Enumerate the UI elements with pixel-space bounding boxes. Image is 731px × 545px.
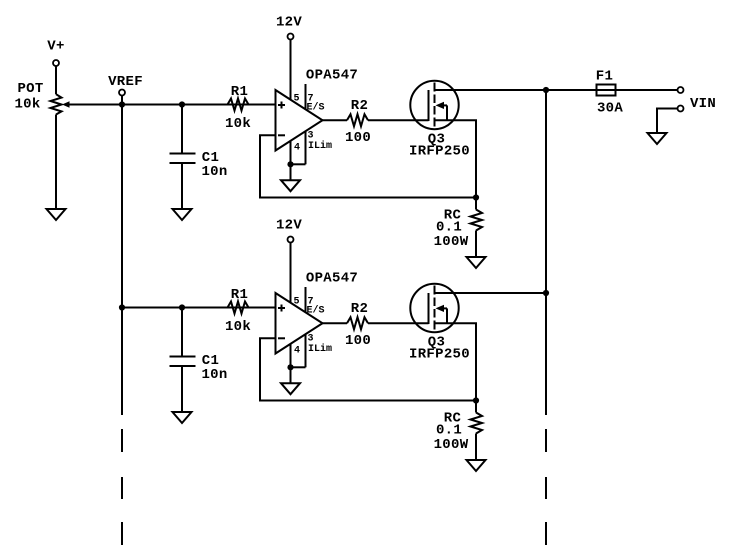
pin 3 ILim stub bbox=[305, 334, 307, 367]
svg-text:100W: 100W bbox=[434, 234, 469, 250]
wire op-amp output 2 bbox=[323, 322, 348, 324]
capacitor C1 10n (2) bbox=[170, 356, 196, 358]
wire bbox=[475, 434, 477, 461]
wire drain 2 bbox=[435, 292, 547, 294]
node pin3/4 junction 2 bbox=[287, 364, 293, 370]
svg-text:12V: 12V bbox=[276, 218, 302, 234]
svg-text:E/S: E/S bbox=[306, 305, 324, 317]
pin 4 bbox=[290, 141, 292, 165]
wire bbox=[55, 66, 57, 94]
wire bbox=[290, 367, 292, 383]
wire right bus bbox=[545, 90, 547, 415]
svg-text:100W: 100W bbox=[434, 437, 469, 453]
pin 4 bbox=[290, 344, 292, 368]
terminal 12V (top) bbox=[288, 34, 294, 40]
wire bbox=[181, 366, 183, 412]
resistor R2 100 bbox=[347, 114, 368, 126]
svg-text:10k: 10k bbox=[225, 116, 251, 132]
svg-text:10n: 10n bbox=[201, 367, 227, 383]
wire right bus dashed bbox=[545, 429, 547, 452]
transistor Q3 IRFP250 (top) bbox=[410, 81, 458, 129]
svg-text:3: 3 bbox=[307, 334, 313, 345]
svg-text:100: 100 bbox=[345, 130, 371, 146]
svg-text:100: 100 bbox=[345, 333, 371, 349]
pin 7 E/S stub bbox=[305, 84, 307, 110]
terminal VIN+ bbox=[678, 87, 684, 93]
wire bbox=[475, 198, 477, 210]
op-amp U1 OPA547 bbox=[276, 90, 323, 151]
svg-text:IRFP250: IRFP250 bbox=[409, 144, 470, 160]
svg-text:R2: R2 bbox=[351, 301, 368, 317]
svg-text:3: 3 bbox=[307, 131, 313, 142]
wire bbox=[657, 109, 678, 134]
potentiometer POT 10k bbox=[51, 94, 62, 114]
svg-text:V+: V+ bbox=[47, 39, 64, 55]
ground bbox=[281, 180, 300, 191]
svg-text:VREF: VREF bbox=[108, 74, 143, 90]
wire bbox=[181, 163, 183, 209]
svg-text:ILim: ILim bbox=[308, 140, 332, 152]
ground bbox=[467, 257, 486, 268]
svg-text:POT: POT bbox=[17, 81, 43, 97]
node VREF junction bbox=[119, 101, 125, 107]
svg-text:30A: 30A bbox=[597, 101, 623, 117]
svg-text:OPA547: OPA547 bbox=[306, 271, 358, 287]
resistor R2 100 (2) bbox=[347, 317, 368, 329]
wire to fuse bbox=[546, 89, 678, 91]
svg-text:4: 4 bbox=[294, 346, 300, 357]
resistor R1 10k (2) bbox=[228, 302, 249, 314]
ground bbox=[173, 412, 192, 423]
svg-text:IRFP250: IRFP250 bbox=[409, 347, 470, 363]
ground bbox=[648, 133, 667, 144]
wire source 2 bbox=[435, 323, 477, 400]
svg-text:4: 4 bbox=[294, 143, 300, 154]
svg-text:R1: R1 bbox=[231, 287, 248, 303]
ground bbox=[467, 460, 486, 471]
svg-text:10k: 10k bbox=[225, 319, 251, 335]
wire feedback 2 bbox=[260, 338, 476, 400]
wire bbox=[181, 308, 183, 357]
node drain/bus junction 2 bbox=[543, 290, 549, 296]
pin 7 E/S stub bbox=[305, 287, 307, 313]
node VREF rail 2 bbox=[119, 304, 125, 310]
ground bbox=[173, 209, 192, 220]
op-amp plus input mark bbox=[278, 104, 285, 106]
wire pin5 supply bbox=[290, 40, 292, 101]
svg-text:R1: R1 bbox=[231, 84, 248, 100]
op-amp U2 OPA547 bbox=[276, 293, 323, 354]
wire gate bbox=[368, 119, 429, 121]
svg-text:ILim: ILim bbox=[308, 343, 332, 355]
op-amp plus input mark bbox=[278, 307, 285, 309]
terminal VREF bbox=[119, 90, 125, 96]
wire left bus bbox=[121, 105, 123, 416]
wire source bbox=[435, 120, 477, 197]
op-amp minus input mark bbox=[278, 337, 285, 339]
svg-text:OPA547: OPA547 bbox=[306, 68, 358, 84]
node drain/bus junction bbox=[543, 87, 549, 93]
resistor R1 10k bbox=[228, 99, 249, 111]
svg-text:10n: 10n bbox=[201, 164, 227, 180]
ground bbox=[281, 383, 300, 394]
transistor Q3 IRFP250 (bottom) bbox=[410, 284, 458, 332]
fuse F1 30A bbox=[597, 85, 616, 96]
wire left bus dashed bbox=[121, 429, 123, 452]
svg-text:5: 5 bbox=[293, 94, 299, 105]
node C1 tap bbox=[179, 101, 185, 107]
svg-text:E/S: E/S bbox=[306, 102, 324, 114]
node RC junction 2 bbox=[473, 397, 479, 403]
wire rail 2 bbox=[122, 307, 276, 309]
svg-text:F1: F1 bbox=[596, 69, 613, 85]
node C1-2 tap bbox=[179, 304, 185, 310]
wire gate 2 bbox=[368, 322, 429, 324]
wire bbox=[475, 401, 477, 413]
capacitor C1 10n bbox=[170, 153, 196, 155]
wire bbox=[475, 231, 477, 258]
resistor RC 0.1 100W bbox=[471, 210, 483, 231]
terminal 12V (bottom) bbox=[288, 237, 294, 243]
op-amp minus input mark bbox=[278, 134, 285, 136]
svg-text:R2: R2 bbox=[351, 98, 368, 114]
terminal V+ bbox=[53, 60, 59, 66]
svg-text:5: 5 bbox=[293, 297, 299, 308]
wire bbox=[290, 164, 292, 180]
pin 3 ILim stub bbox=[305, 131, 307, 164]
wire bbox=[55, 115, 57, 210]
wire op-amp output bbox=[323, 119, 348, 121]
svg-text:12V: 12V bbox=[276, 15, 302, 31]
node pin3/4 junction bbox=[287, 161, 293, 167]
resistor RC 0.1 100W (2) bbox=[471, 413, 483, 434]
svg-text:VIN: VIN bbox=[690, 96, 716, 112]
wire pin5 supply 2 bbox=[290, 243, 292, 304]
wire wiper to VREF rail bbox=[66, 104, 276, 106]
ground bbox=[47, 209, 66, 220]
wire VREF stub bbox=[121, 96, 123, 105]
svg-text:10k: 10k bbox=[14, 97, 40, 113]
terminal VIN- bbox=[678, 106, 684, 112]
wire drain bbox=[435, 89, 547, 91]
wire feedback bbox=[260, 135, 476, 197]
wire bbox=[181, 105, 183, 154]
node RC junction bbox=[473, 194, 479, 200]
